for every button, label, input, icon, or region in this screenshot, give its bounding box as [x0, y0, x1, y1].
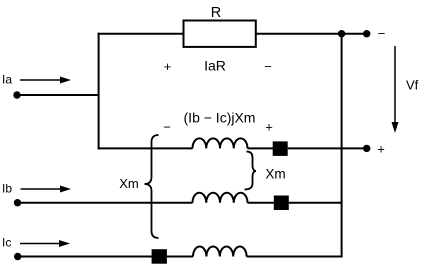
wire mutual row left segment: [98, 147, 193, 149]
node Ib terminal dot: [14, 199, 21, 206]
svg-text:Xm: Xm: [265, 167, 285, 182]
brace left Xm (groups phase coils): [145, 135, 159, 238]
node top terminal dot: [363, 30, 370, 37]
wire mutual row middle segment: [248, 147, 274, 149]
brace right Xm (mutual between coils): [245, 152, 257, 190]
svg-text:Xm: Xm: [119, 176, 139, 191]
inductor Lc (Ic row coil): [193, 247, 247, 257]
terminal square (Ic row): [152, 249, 167, 264]
wire top rail left of resistor: [98, 33, 183, 35]
wire Ib row left segment: [18, 202, 193, 204]
svg-text:(Ib − Ic)jXm: (Ib − Ic)jXm: [184, 110, 256, 126]
arrow Ib current direction: [21, 186, 72, 193]
wire Ia row: [17, 94, 99, 96]
svg-text:−: −: [378, 26, 386, 41]
terminal square (mutual row): [273, 141, 288, 156]
wire mutual row right segment: [288, 147, 367, 149]
terminal square (Ib row): [274, 196, 289, 211]
svg-text:−: −: [163, 120, 171, 135]
node mutual row terminal dot: [363, 145, 370, 152]
svg-text:Vf: Vf: [406, 78, 419, 93]
inductor La (mutual row coil): [193, 138, 248, 148]
arrow Ia current direction: [20, 77, 71, 84]
arrow Vf voltage direction: [392, 46, 399, 133]
left vertical bus wire: [98, 33, 100, 150]
svg-text:R: R: [211, 5, 221, 21]
node Ia terminal dot: [13, 91, 20, 98]
svg-text:+: +: [265, 120, 273, 135]
arrow Ic current direction: [20, 240, 70, 247]
wire Ic row left segment: [18, 256, 152, 258]
svg-text:Ic: Ic: [2, 236, 11, 250]
inductor Lb (Ib row coil): [193, 193, 248, 203]
node top junction dot: [338, 30, 345, 37]
svg-text:+: +: [164, 59, 172, 74]
wire Ib row right segment: [289, 202, 342, 204]
svg-text:+: +: [377, 142, 385, 157]
node Ic terminal dot: [14, 253, 21, 260]
svg-text:Ia: Ia: [2, 73, 12, 87]
right vertical bus wire: [341, 34, 343, 258]
wire Ic row right segment: [247, 256, 343, 258]
svg-text:Ib: Ib: [2, 182, 12, 196]
svg-text:IaR: IaR: [204, 58, 226, 74]
wire Ic row middle segment: [167, 256, 193, 258]
svg-text:−: −: [264, 59, 272, 74]
wire top rail right of resistor: [257, 33, 367, 35]
wire Ib row middle segment: [248, 202, 275, 204]
resistor R1 box: [184, 21, 256, 47]
